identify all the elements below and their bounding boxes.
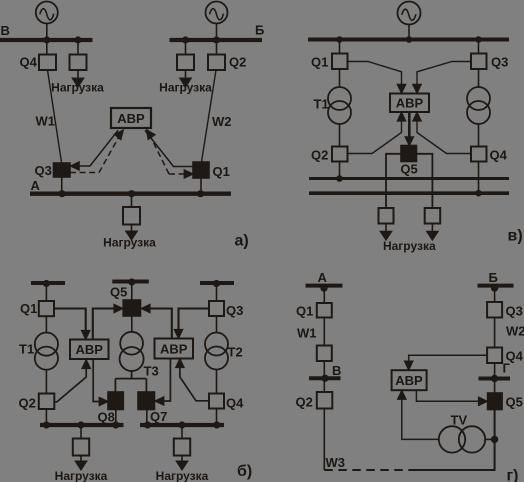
svg-text:Q2: Q2 bbox=[19, 396, 36, 411]
wire Q3 to bus А bbox=[61, 177, 63, 192]
wire Q4 to right bus (б) bbox=[216, 409, 218, 424]
line W2 bbox=[202, 70, 217, 162]
bus Б bbox=[170, 38, 263, 42]
breaker Q4 (в) bbox=[471, 147, 487, 162]
wire stub to Q5 (б) bbox=[131, 284, 133, 301]
bus 1 (в) bbox=[309, 177, 509, 180]
wire T1 to Q2 (в) bbox=[339, 124, 341, 147]
left bus (б) bbox=[40, 423, 124, 427]
wire Q4 to bus2 (в) bbox=[478, 162, 480, 192]
generator G1 (а left) bbox=[36, 2, 58, 24]
node left bus / load (б) bbox=[77, 421, 84, 428]
load arrow right (в) bbox=[427, 224, 438, 240]
breaker Q4 (б) bbox=[209, 394, 224, 409]
wire bus to Q1 (в) bbox=[339, 42, 341, 54]
supply stub left (б) bbox=[31, 281, 65, 285]
op box АВР (г) bbox=[392, 370, 427, 390]
load breaker right (в) bbox=[425, 208, 441, 224]
wire Q4 to stub Г (г) bbox=[494, 363, 496, 377]
wire Q7 to right bus (б) bbox=[146, 410, 148, 424]
svg-text:АВР: АВР bbox=[396, 95, 424, 110]
supply stub А (г) bbox=[306, 284, 343, 288]
load arrow left (в) bbox=[381, 224, 392, 240]
wire T2 to Q4 (в) bbox=[478, 124, 480, 147]
op box АВР (а) bbox=[111, 108, 151, 128]
svg-text:Q2: Q2 bbox=[296, 395, 313, 410]
control АВР-right to Q7 (б) bbox=[155, 359, 170, 405]
breaker Q5 (б, closed) bbox=[123, 300, 140, 316]
right bus (б) bbox=[140, 423, 224, 427]
load arrow (а right) bbox=[180, 70, 191, 87]
node bus А / load bbox=[128, 190, 135, 197]
svg-text:АВР: АВР bbox=[75, 342, 103, 357]
load arrow left (б) bbox=[76, 456, 87, 470]
svg-text:Q4: Q4 bbox=[20, 55, 38, 70]
wire Q2 to bus1 (в) bbox=[339, 162, 341, 178]
load breaker (а left) bbox=[70, 55, 87, 71]
wire bus Б to Q2 bbox=[216, 42, 218, 55]
svg-text:Q2: Q2 bbox=[311, 148, 328, 163]
svg-text:Q1: Q1 bbox=[20, 301, 37, 316]
svg-text:Т1: Т1 bbox=[19, 342, 34, 357]
control line АВР to Q1 (solid) bbox=[145, 131, 193, 167]
svg-text:АВР: АВР bbox=[160, 342, 188, 357]
wire stub to Q1 (б) bbox=[45, 285, 47, 301]
node left bus / Q8 (б) bbox=[112, 421, 119, 428]
svg-text:Q1: Q1 bbox=[311, 55, 328, 70]
breaker Q7 (б, closed) bbox=[138, 392, 155, 410]
wire Q3 to T2 (в) bbox=[478, 69, 480, 87]
breaker Q1 (в) bbox=[332, 54, 348, 70]
wire bus to Q3 (в) bbox=[478, 42, 480, 54]
line W2 (г) bbox=[494, 318, 496, 348]
control line Q3 to АВР (dashed) bbox=[70, 128, 126, 173]
supply stub center (б) bbox=[112, 280, 149, 284]
svg-text:Q3: Q3 bbox=[226, 303, 243, 318]
load breaker left (б) bbox=[73, 439, 89, 456]
control TV to АВР (г) bbox=[398, 391, 439, 440]
svg-text:Нагрузка: Нагрузка bbox=[383, 239, 436, 253]
breaker Q8 (б, closed) bbox=[108, 392, 123, 410]
wire bus Б to right load bbox=[185, 42, 187, 55]
transformer T1 (б) bbox=[35, 333, 58, 370]
breaker Q5 (г, closed) bbox=[488, 393, 503, 410]
node stub Б (г) bbox=[491, 284, 498, 291]
breaker Q2 (в) bbox=[332, 147, 348, 162]
wire T3 split to Q8/Q7 (б) bbox=[115, 371, 146, 392]
wire Q5 right to load (в) bbox=[417, 154, 433, 208]
svg-text:А: А bbox=[318, 270, 328, 285]
control Q2 to АВР (в) bbox=[348, 113, 406, 154]
wire W3 solid to right branch (г) bbox=[412, 410, 495, 471]
svg-text:В: В bbox=[1, 23, 10, 38]
node stub right (б) bbox=[213, 280, 220, 287]
wire G2 to bus Б bbox=[216, 24, 218, 39]
breaker mid W1 (г) bbox=[317, 346, 332, 362]
generator G (в) bbox=[398, 2, 421, 25]
node right bus / Q4 (б) bbox=[213, 421, 220, 428]
node right bus / Q7 (б) bbox=[144, 421, 151, 428]
wire G to top bus (в) bbox=[408, 25, 410, 38]
node bus В / load bbox=[74, 36, 81, 43]
line W3 dashed (г) bbox=[324, 469, 412, 471]
svg-text:Т3: Т3 bbox=[144, 364, 159, 379]
wire Q1 to bus А bbox=[200, 178, 202, 192]
supply stub Б (г) bbox=[478, 284, 514, 288]
wire T2 to Q4 (б) bbox=[216, 370, 218, 394]
wire Q2 down (г) bbox=[323, 409, 325, 471]
node bus2 / Q4 (в) bbox=[475, 190, 482, 197]
node bus В / Q4 bbox=[43, 36, 50, 43]
generator G2 (а right) bbox=[206, 2, 228, 24]
op box АВР left (б) bbox=[70, 340, 109, 360]
svg-text:В: В bbox=[332, 363, 341, 378]
node stub Г (г) bbox=[491, 375, 498, 382]
node bus1 / Q2 (в) bbox=[336, 175, 343, 182]
transformer TV (г) bbox=[439, 426, 485, 452]
svg-text:АВР: АВР bbox=[395, 373, 423, 388]
bus В bbox=[0, 38, 93, 42]
control Q1 to АВР-left (б) bbox=[54, 309, 90, 339]
load breaker (а bottom) bbox=[123, 207, 140, 225]
wire Q1 to T1 (в) bbox=[339, 69, 341, 87]
svg-text:Q4: Q4 bbox=[226, 396, 244, 411]
svg-text:Q3: Q3 bbox=[506, 304, 523, 319]
wire TV to right line (г) bbox=[485, 438, 494, 440]
wire Q8 to left bus (б) bbox=[115, 410, 117, 424]
op box АВР (в) bbox=[390, 94, 429, 113]
supply stub Г (г) bbox=[479, 377, 511, 381]
svg-text:W1: W1 bbox=[36, 114, 56, 129]
node top bus / G (в) bbox=[406, 36, 413, 43]
svg-text:TV: TV bbox=[451, 413, 468, 428]
control АВР to Q5 (г) bbox=[416, 390, 487, 405]
node stub А (г) bbox=[320, 284, 327, 291]
node top bus / Q3 (в) bbox=[475, 36, 482, 43]
node bus А / Q3 bbox=[58, 190, 65, 197]
wire to left load (б) bbox=[80, 427, 82, 439]
svg-text:Q8: Q8 bbox=[98, 410, 115, 425]
control АВР-left to Q5 (б) bbox=[93, 305, 123, 340]
svg-text:Нагрузка: Нагрузка bbox=[51, 81, 104, 95]
svg-text:Б: Б bbox=[255, 23, 264, 38]
svg-text:Нагрузка: Нагрузка bbox=[159, 81, 212, 95]
breaker Q1 (г) bbox=[317, 303, 332, 318]
svg-text:б): б) bbox=[237, 463, 252, 480]
svg-text:W3: W3 bbox=[326, 455, 346, 470]
supply stub right (б) bbox=[200, 281, 234, 285]
control Q3 to АВР-right (б) bbox=[175, 309, 209, 338]
bus А bbox=[30, 191, 231, 195]
control line Q1 to АВР (dashed) bbox=[144, 128, 193, 178]
svg-text:в): в) bbox=[508, 228, 523, 245]
node stub В (г) bbox=[321, 375, 328, 382]
svg-text:Q1: Q1 bbox=[213, 164, 230, 179]
wire Q5 to T3 (б) bbox=[131, 316, 133, 332]
wire Q3 to T2 (б) bbox=[216, 316, 218, 333]
control line АВР to Q3 (solid) bbox=[71, 130, 118, 170]
transformer T2 (б) bbox=[205, 333, 228, 370]
wire Б to Q3 (г) bbox=[494, 288, 496, 302]
op box АВР right (б) bbox=[155, 339, 194, 359]
line W1 bbox=[48, 70, 62, 163]
wire Q5 left to load (в) bbox=[386, 154, 401, 208]
transformer right (в) bbox=[467, 87, 490, 124]
wire T1 to Q2 (б) bbox=[45, 370, 47, 394]
svg-text:Q5: Q5 bbox=[400, 162, 417, 177]
breaker Q4 (г) bbox=[487, 348, 502, 364]
node bus Б / load bbox=[182, 36, 189, 43]
transformer T1 (в) bbox=[328, 87, 351, 124]
bus 2 (в) bbox=[309, 191, 509, 195]
load breaker (а right) bbox=[177, 55, 194, 71]
control Q4 to АВР-right (б) bbox=[176, 359, 209, 401]
control Q4 to АВР (г) bbox=[405, 355, 487, 369]
svg-text:Q7: Q7 bbox=[150, 409, 167, 424]
transformer T3 (б) bbox=[120, 332, 144, 371]
load breaker right (б) bbox=[174, 439, 190, 456]
breaker Q3 (г) bbox=[487, 302, 502, 318]
node stub center (б) bbox=[128, 278, 135, 285]
svg-text:Г: Г bbox=[503, 361, 511, 376]
node right bus / load (б) bbox=[178, 421, 185, 428]
breaker Q2 bbox=[208, 55, 225, 71]
svg-text:Т2: Т2 bbox=[228, 345, 243, 360]
breaker Q3 (в) bbox=[471, 54, 487, 70]
breaker Q4 bbox=[39, 55, 56, 71]
node top bus / Q1 (в) bbox=[336, 36, 343, 43]
breaker Q5 (в, closed) bbox=[401, 146, 417, 162]
svg-text:А: А bbox=[31, 178, 41, 193]
svg-text:Нагрузка: Нагрузка bbox=[156, 469, 209, 482]
node TV tap (г) bbox=[491, 436, 498, 443]
svg-text:Q5: Q5 bbox=[506, 395, 523, 410]
top bus (в) bbox=[308, 38, 509, 42]
load breaker left (в) bbox=[379, 208, 394, 224]
load arrow right (б) bbox=[177, 456, 188, 470]
control АВР-left to Q8 (б) bbox=[93, 359, 107, 405]
wire to right load (б) bbox=[181, 427, 183, 439]
svg-text:Б: Б bbox=[489, 270, 498, 285]
node bus А / Q1 bbox=[197, 190, 204, 197]
svg-text:W2: W2 bbox=[212, 114, 232, 129]
svg-text:Q4: Q4 bbox=[490, 148, 508, 163]
svg-text:W1: W1 bbox=[297, 326, 317, 341]
wire stub to Q3 (б) bbox=[216, 285, 218, 301]
node left bus / Q2 (б) bbox=[43, 421, 50, 428]
control Q4 to АВР (в) bbox=[413, 113, 471, 154]
line W1 (г) bbox=[323, 318, 325, 346]
svg-text:г): г) bbox=[507, 468, 519, 482]
control Q1 to АВР (в) bbox=[348, 62, 406, 93]
breaker Q1 (closed) bbox=[193, 162, 209, 178]
wire bus А to bottom load bbox=[131, 196, 133, 207]
svg-text:Т1: Т1 bbox=[314, 97, 329, 112]
svg-text:Q1: Q1 bbox=[296, 304, 313, 319]
node stub left (б) bbox=[43, 280, 50, 287]
breaker Q1 (б) bbox=[39, 301, 54, 316]
svg-text:Нагрузка: Нагрузка bbox=[103, 236, 156, 250]
wire Q1 to T1 (б) bbox=[45, 316, 47, 333]
svg-text:АВР: АВР bbox=[117, 111, 145, 126]
wire А to Q1 (г) bbox=[323, 288, 325, 303]
load arrow (а bottom) bbox=[126, 225, 137, 240]
svg-text:Q5: Q5 bbox=[110, 285, 127, 300]
wire Q2 to left bus (б) bbox=[45, 409, 47, 423]
load arrow (а left) bbox=[73, 70, 84, 87]
supply stub В (г) bbox=[309, 376, 341, 380]
svg-text:Q3: Q3 bbox=[491, 55, 508, 70]
wire Г to Q5 (г) bbox=[494, 381, 496, 394]
control АВР to Q5 (в) bbox=[405, 112, 413, 145]
svg-text:Нагрузка: Нагрузка bbox=[55, 469, 108, 482]
breaker Q2 (б) bbox=[39, 394, 55, 410]
svg-text:Q3: Q3 bbox=[35, 163, 52, 178]
svg-text:а): а) bbox=[235, 233, 249, 250]
breaker Q3 (closed) bbox=[54, 163, 71, 177]
control АВР-right to Q5 (б) bbox=[142, 305, 172, 339]
svg-text:Q2: Q2 bbox=[229, 55, 246, 70]
control Q3 to АВР (в) bbox=[413, 62, 471, 93]
node bus Б / Q2 bbox=[213, 36, 220, 43]
wire bus В to Q4 bbox=[46, 42, 48, 55]
wire bus В to left load bbox=[77, 42, 79, 55]
wire to stub В (г) bbox=[323, 361, 325, 376]
svg-text:W2: W2 bbox=[506, 324, 524, 339]
breaker Q3 (б) bbox=[209, 301, 224, 316]
wire G1 to bus В bbox=[46, 24, 48, 39]
breaker Q2 (г) bbox=[317, 392, 333, 409]
wire В to Q2 (г) bbox=[323, 380, 325, 392]
control Q2 to АВР-left (б) bbox=[55, 360, 91, 402]
